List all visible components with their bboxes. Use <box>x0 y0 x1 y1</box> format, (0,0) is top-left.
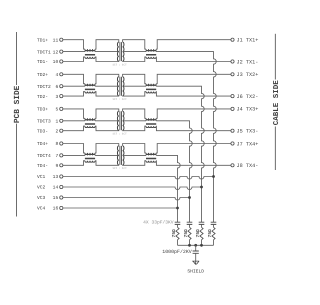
pin 8 (TD4+) terminal <box>60 142 63 145</box>
terminal VC2 pin 14 <box>60 185 63 188</box>
wire transformer T2 secondary bottom to choke L2' <box>123 92 146 97</box>
svg-text:12: 12 <box>53 49 59 55</box>
choke L1 core <box>85 53 95 56</box>
wire TX4- to J8 TX4- <box>156 161 231 166</box>
wire resistor to bus <box>177 240 179 246</box>
terminal J7 TX4+ <box>231 142 234 145</box>
svg-text:TD1+: TD1+ <box>37 37 48 43</box>
choke L2' core <box>146 88 156 91</box>
resistor R2 75ohm <box>188 227 191 240</box>
svg-text:VC3: VC3 <box>37 195 45 201</box>
choke L1' top winding <box>146 49 156 51</box>
junction VC3 <box>188 196 191 199</box>
svg-text:J7 TX4+: J7 TX4+ <box>237 141 259 147</box>
choke L3' core <box>146 123 156 126</box>
svg-text:TD2+: TD2+ <box>37 72 48 78</box>
transformer T2 primary winding <box>117 77 118 96</box>
wire transformer T2 secondary top to choke L2' <box>123 74 146 83</box>
capacitor C3 (33pF/3KV) <box>199 222 205 224</box>
wire choke L1 bottom to transformer T1 primary bottom <box>95 57 119 62</box>
transformer T1 secondary winding <box>123 42 124 61</box>
svg-text:1: 1 <box>55 119 58 125</box>
pin 2 (TD3-) terminal <box>60 129 63 132</box>
wire choke L2 mid to transformer T2 primary tap <box>95 85 119 87</box>
transformer T1 core <box>120 42 122 61</box>
CABLE SIDE rail lower segment <box>274 127 276 171</box>
wire center tap CT2 to column <box>156 86 204 197</box>
PCB SIDE rail upper segment <box>16 32 18 85</box>
resistor R1 75ohm <box>176 227 179 240</box>
wire TD2+ to choke L2 top winding <box>63 74 85 83</box>
bus junction dot 2 <box>200 244 203 247</box>
svg-text:J5 TX3-: J5 TX3- <box>237 129 259 135</box>
choke L4' bottom winding <box>146 161 156 163</box>
svg-text:SHIELD: SHIELD <box>187 268 204 274</box>
wire TX3- to J5 TX3- <box>156 126 231 131</box>
wire center tap CT4 to column <box>156 155 180 176</box>
svg-text:10: 10 <box>53 59 59 64</box>
choke L2' top winding <box>146 84 156 86</box>
choke L4 mid winding <box>85 154 95 155</box>
wire choke L4 bottom to transformer T4 primary bottom <box>95 161 119 166</box>
pin 4 (TD2+) terminal <box>60 73 63 76</box>
svg-text:VC2: VC2 <box>37 185 45 191</box>
wire TD4+ to choke L4 top winding <box>63 144 85 153</box>
svg-text:TD1-: TD1- <box>37 59 48 64</box>
wire choke L3 mid to transformer T3 primary tap <box>95 120 119 122</box>
choke L1 top winding <box>85 49 95 51</box>
wire TX3+ to J4 TX3+ <box>156 109 231 118</box>
choke L1' bottom winding <box>146 57 156 59</box>
wire capacitor to chassis <box>195 253 197 261</box>
wire transformer T4 secondary top to choke L4' <box>123 144 146 153</box>
column continues to capacitor <box>177 177 179 223</box>
wire TD2- to choke L2 bottom winding <box>63 92 85 97</box>
wire transformer T3 secondary top to choke L3' <box>123 109 146 118</box>
svg-text:9: 9 <box>55 163 58 169</box>
svg-text:J6 TX2-: J6 TX2- <box>237 94 259 100</box>
wire choke L2 top to transformer T2 primary top <box>95 74 119 83</box>
transformer T4 secondary winding <box>123 146 124 165</box>
pin 6 (TDCT2) terminal <box>60 85 63 88</box>
svg-text:J3 TX2+: J3 TX2+ <box>237 72 259 78</box>
svg-text:TDCT3: TDCT3 <box>37 119 51 125</box>
wire transformer T3 secondary bottom to choke L3' <box>123 126 146 131</box>
choke L4' top winding <box>146 153 156 155</box>
svg-text:4X 33pF/3KV: 4X 33pF/3KV <box>143 219 174 225</box>
svg-text:6: 6 <box>55 84 58 90</box>
pin 12 (TDCT1) terminal <box>60 50 63 53</box>
wire VC2 to column <box>63 187 202 190</box>
wire TD3- to choke L3 bottom winding <box>63 126 85 131</box>
svg-text:TD4-: TD4- <box>37 163 48 169</box>
wire transformer T4 secondary tap to choke L4' mid <box>123 154 146 156</box>
pin 1 (TDCT3) terminal <box>60 119 63 122</box>
svg-text:TD3-: TD3- <box>37 128 48 134</box>
svg-text:4: 4 <box>55 72 58 78</box>
svg-text:TD4+: TD4+ <box>37 141 48 147</box>
svg-text:1CT : 1CT: 1CT : 1CT <box>112 133 127 136</box>
terminal VC1 pin 13 <box>60 175 63 178</box>
PCB SIDE rail lower segment <box>16 124 18 217</box>
svg-text:8: 8 <box>55 141 58 147</box>
wire TDCT3 to choke L3 mid winding <box>63 120 85 122</box>
wire transformer T1 secondary tap to choke L1' mid <box>123 51 146 53</box>
wire TD1+ to choke L1 top winding <box>63 40 85 49</box>
choke L2 top winding <box>85 84 95 86</box>
wire choke L3 bottom to transformer T3 primary bottom <box>95 126 119 131</box>
choke L2 mid winding <box>85 85 95 86</box>
svg-text:J2 TX1-: J2 TX1- <box>237 59 259 65</box>
terminal J6 TX2- <box>231 95 234 98</box>
svg-text:1CT : 1CT: 1CT : 1CT <box>112 98 127 101</box>
wire resistor to bus <box>189 240 191 246</box>
svg-text:J1 TX1+: J1 TX1+ <box>237 38 259 44</box>
wire TX1+ to J1 TX1+ <box>156 40 231 49</box>
wire center tap CT3 to column <box>156 121 192 187</box>
terminal VC3 pin 15 <box>60 196 63 199</box>
wire choke L2 bottom to transformer T2 primary bottom <box>95 92 119 97</box>
wire VC4 to column <box>63 207 178 209</box>
choke L3' bottom winding <box>146 126 156 128</box>
pin 9 (TD4-) terminal <box>60 164 63 167</box>
wire cap to resistor <box>201 224 203 227</box>
chassis ground (shield) symbol <box>192 261 199 265</box>
wire TD4- to choke L4 bottom winding <box>63 161 85 166</box>
choke L3' top winding <box>146 118 156 120</box>
wire resistor to bus <box>213 240 215 246</box>
svg-text:5: 5 <box>55 107 58 113</box>
terminal J3 TX2+ <box>231 73 234 76</box>
pin 10 (TD1-) terminal <box>60 60 63 63</box>
terminal J4 TX3+ <box>231 107 234 110</box>
transformer T2 secondary winding <box>123 77 124 96</box>
bus junction dot 1 <box>188 244 191 247</box>
wire choke L1 top to transformer T1 primary top <box>95 40 119 49</box>
transformer T1 primary winding <box>117 42 118 61</box>
svg-text:PCB SIDE: PCB SIDE <box>13 86 22 123</box>
transformer T2 core <box>120 77 122 96</box>
transformer T3 primary winding <box>117 111 118 130</box>
svg-text:CABLE SIDE: CABLE SIDE <box>272 80 281 125</box>
svg-text:TD3+: TD3+ <box>37 107 48 113</box>
wire TDCT1 to choke L1 mid winding <box>63 51 85 53</box>
transformer T3 core <box>120 111 122 130</box>
wire transformer T1 secondary top to choke L1' <box>123 40 146 49</box>
wire choke L3 top to transformer T3 primary top <box>95 109 119 118</box>
CABLE SIDE rail upper segment <box>274 34 276 80</box>
choke L4' mid winding <box>146 154 156 155</box>
wire transformer T3 secondary tap to choke L3' mid <box>123 120 146 122</box>
pin 7 (TDCT4) terminal <box>60 154 63 157</box>
wire transformer T1 secondary bottom to choke L1' <box>123 57 146 62</box>
choke L1 bottom winding <box>85 57 95 59</box>
choke L2 bottom winding <box>85 92 95 94</box>
choke L4 top winding <box>85 153 95 155</box>
terminal J8 TX4- <box>231 164 234 167</box>
svg-text:1000pF/2KV: 1000pF/2KV <box>162 249 191 255</box>
terminal J5 TX3- <box>231 129 234 132</box>
wire VC3 to column <box>63 198 190 201</box>
resistor R4 75ohm <box>212 227 215 240</box>
wire center tap CT1 to column <box>156 52 216 208</box>
transformer T4 primary winding <box>117 146 118 165</box>
pin 3 (TD2-) terminal <box>60 95 63 98</box>
pin 11 (TD1+) terminal <box>60 38 63 41</box>
transformer T4 core <box>120 146 122 165</box>
junction VC1 <box>212 175 215 178</box>
wire choke L4 mid to transformer T4 primary tap <box>95 154 119 156</box>
svg-text:11: 11 <box>53 37 59 43</box>
wire cap to resistor <box>177 224 179 227</box>
choke L3' mid winding <box>146 120 156 121</box>
svg-text:J4 TX3+: J4 TX3+ <box>237 107 259 113</box>
svg-text:75Ω: 75Ω <box>196 229 201 237</box>
wire transformer T4 secondary bottom to choke L4' <box>123 161 146 166</box>
terminal J1 TX1+ <box>231 38 234 41</box>
resistor R3 75ohm <box>200 227 203 240</box>
choke L3 bottom winding <box>85 126 95 128</box>
svg-text:75Ω: 75Ω <box>172 229 177 237</box>
wire TDCT2 to choke L2 mid winding <box>63 85 85 87</box>
svg-text:75Ω: 75Ω <box>208 229 213 237</box>
svg-text:3: 3 <box>55 94 58 100</box>
svg-text:13: 13 <box>53 174 59 180</box>
bus junction dot 3 <box>194 244 197 247</box>
wire VC1 to column <box>63 177 214 180</box>
wire TD1- to choke L1 bottom winding <box>63 57 85 62</box>
svg-text:VC1: VC1 <box>37 174 46 180</box>
svg-text:J8 TX4-: J8 TX4- <box>237 163 259 169</box>
wire TDCT4 to choke L4 mid winding <box>63 154 85 156</box>
choke L3 core <box>85 123 95 126</box>
svg-text:75Ω: 75Ω <box>184 229 189 237</box>
capacitor C1 (33pF/3KV) <box>175 222 181 224</box>
choke L1' mid winding <box>146 50 156 51</box>
wire choke L1 mid to transformer T1 primary tap <box>95 51 119 53</box>
svg-text:16: 16 <box>53 206 59 212</box>
choke L2' mid winding <box>146 85 156 86</box>
choke L3 top winding <box>85 118 95 120</box>
svg-text:TDCT2: TDCT2 <box>37 84 51 90</box>
ground bus <box>178 244 214 246</box>
wire cap to resistor <box>213 224 215 227</box>
svg-text:TD2-: TD2- <box>37 94 48 100</box>
terminal J2 TX1- <box>231 60 234 63</box>
terminal VC4 pin 16 <box>60 206 63 209</box>
junction VC2 <box>200 186 203 189</box>
svg-text:TDCT4: TDCT4 <box>37 153 51 159</box>
choke L4 core <box>85 157 95 160</box>
wire transformer T2 secondary tap to choke L2' mid <box>123 85 146 87</box>
wire TD3+ to choke L3 top winding <box>63 109 85 118</box>
wire bus to shield capacitor <box>195 245 197 251</box>
wire cap to resistor <box>189 224 191 227</box>
choke L4' core <box>146 157 156 160</box>
column continues to capacitor <box>213 208 215 222</box>
svg-text:1CT : 1CT: 1CT : 1CT <box>112 167 127 170</box>
svg-text:14: 14 <box>53 185 59 191</box>
svg-text:2: 2 <box>55 128 58 134</box>
choke L2' bottom winding <box>146 92 156 94</box>
wire TX4+ to J7 TX4+ <box>156 144 231 153</box>
wire choke L4 top to transformer T4 primary top <box>95 144 119 153</box>
column continues to capacitor <box>189 187 191 222</box>
choke L1 mid winding <box>85 50 95 51</box>
wire resistor to bus <box>201 240 203 246</box>
transformer T3 secondary winding <box>123 111 124 130</box>
svg-text:VC4: VC4 <box>37 206 46 212</box>
svg-text:7: 7 <box>55 153 58 159</box>
choke L3 mid winding <box>85 120 95 121</box>
pin 5 (TD3+) terminal <box>60 107 63 110</box>
capacitor C5 1000pF/2KV <box>193 251 199 253</box>
wire TX1- to J2 TX1- <box>156 57 231 62</box>
svg-text:TDCT1: TDCT1 <box>37 49 51 55</box>
junction VC4 <box>176 207 179 210</box>
svg-text:1CT : 1CT: 1CT : 1CT <box>112 63 127 66</box>
svg-text:15: 15 <box>53 195 59 201</box>
choke L1' core <box>146 53 156 56</box>
choke L2 core <box>85 88 95 91</box>
capacitor C4 (33pF/3KV) <box>211 222 217 224</box>
wire TX2- to J6 TX2- <box>156 92 231 97</box>
capacitor C2 (33pF/3KV) <box>187 222 193 224</box>
choke L4 bottom winding <box>85 161 95 163</box>
column continues to capacitor <box>201 198 203 223</box>
wire TX2+ to J3 TX2+ <box>156 74 231 83</box>
